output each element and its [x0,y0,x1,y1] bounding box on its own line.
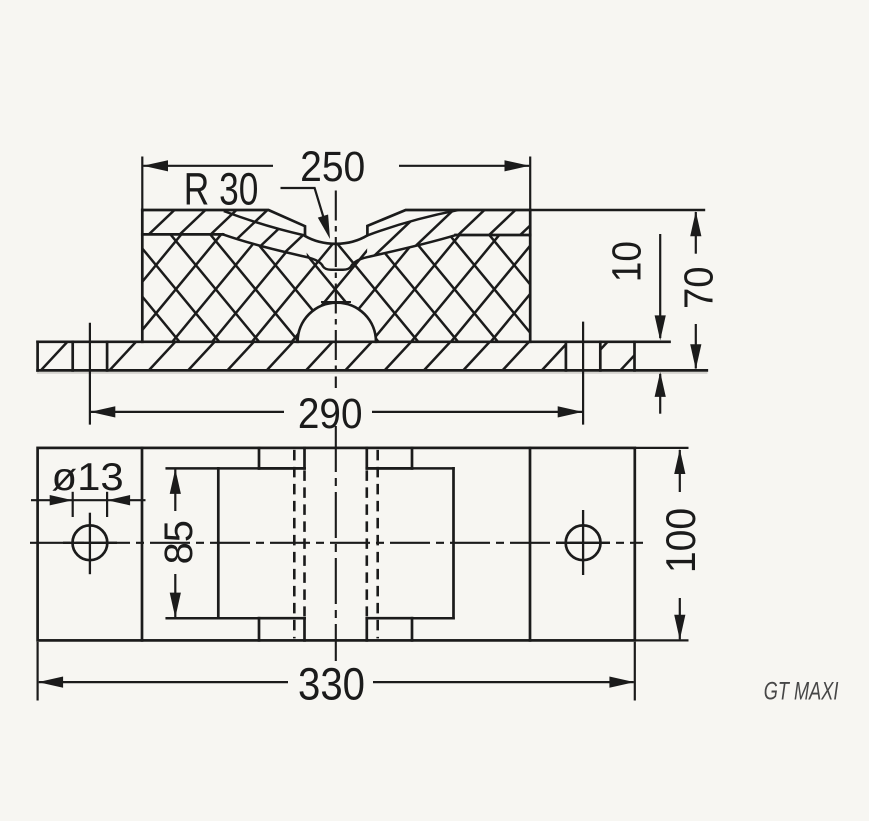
rubber surface dip curve [223,234,456,269]
arrows o13 (outside) [50,495,73,505]
top plate outline (plan) verticals [217,468,220,618]
base plate top edge [38,340,670,343]
hidden edge dip left [293,450,296,639]
arrows 85 [170,469,181,494]
base plate left end [36,342,39,371]
dim o13 extension lines [72,492,74,517]
svg-text:290: 290 [298,390,363,438]
svg-text:100: 100 [657,508,704,573]
rubber block edge right (plan) [529,448,532,641]
svg-text:70: 70 [676,267,722,310]
arrows 10 [655,315,666,340]
arch top chord [322,301,350,303]
arrows 250 [143,160,168,171]
mount block right edge [529,210,532,342]
base plate outline (plan) [38,448,635,641]
mounting hole right (plan) [566,525,601,560]
svg-text:10: 10 [603,241,649,282]
base plate hatch [41,342,635,371]
hole centre marks plan [89,513,91,575]
notch shelves [259,467,305,470]
dim o13 line [31,499,146,501]
dim 85 line [174,470,176,512]
bolt hole edges front left [71,342,74,371]
dim 70 line [695,212,697,254]
hidden edge dip right [376,450,379,639]
top plate single hatch [142,205,310,260]
mount block left edge [141,210,144,342]
svg-text:330: 330 [298,659,365,710]
arrows 290 [90,406,115,417]
arrows 70 [690,211,701,236]
vertical center line (plan view) [335,426,337,661]
dim 100 line [679,450,681,492]
base plate right end [633,342,636,371]
svg-text:GT MAXI: GT MAXI [764,679,839,706]
interleaf plate edge right [367,210,457,235]
notch walls bottom edge [258,618,261,640]
svg-text:85: 85 [157,520,201,564]
dome cut-out (white) [298,303,376,342]
bolt hole edges front right [565,342,568,371]
top plate outline (plan) horizontals + 85 extension [167,467,305,470]
vertical center line (front view) [335,191,337,389]
arrows 330 [38,677,63,688]
rubber arch cut-out [298,303,376,342]
horizontal center line (plan) [30,542,643,544]
interleaf plate edge left [225,212,305,236]
svg-text:ø13: ø13 [52,456,124,499]
hidden edge step left [303,470,306,616]
arrow R30 leader [318,215,330,240]
dim 100 extension lines [635,447,689,449]
top plate lower edge right [456,234,531,237]
top edge extension to 70 dim [530,209,704,211]
rubber body cross-hatch [142,205,530,342]
notch walls top edge [258,448,261,469]
top plate profile with V-dip [142,210,530,244]
faint scan line under base plate [38,372,707,374]
hidden edge step right [365,470,368,616]
svg-text:250: 250 [300,144,365,191]
base plate bottom edge [38,369,707,372]
dim 250 extension lines [141,157,143,210]
rubber block edge left (plan) [141,448,144,641]
mounting hole left (plan) [73,525,108,560]
dim 330 line [39,681,288,683]
R30 leader [281,188,328,231]
dim 10 line [659,234,661,338]
top plate lower edge left [142,233,223,236]
dim 290 extension lines / hole axes front [89,323,91,425]
arrows 100 [674,449,685,474]
dim 250 line [143,165,273,167]
dim 290 line [91,411,284,413]
svg-text:R 30: R 30 [184,164,259,215]
dim 330 extension lines [36,642,38,701]
